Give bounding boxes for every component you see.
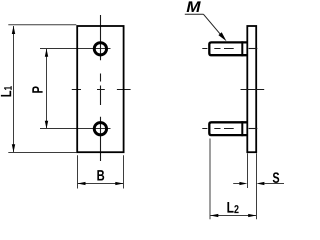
hole H1 horizontal centerline / P extension bbox=[40, 48, 111, 50]
dimension s right tail bbox=[264, 183, 284, 185]
label L1 bbox=[1, 86, 12, 96]
dimension B line bbox=[77, 183, 123, 185]
leader arrowhead bbox=[218, 32, 226, 41]
dimension L2 arrow right bbox=[248, 214, 256, 217]
dimension s left extension line bbox=[247, 153, 249, 188]
dimension s right arrow bbox=[256, 182, 264, 185]
plate outline front view bbox=[77, 26, 123, 152]
hole H2 (threaded) bbox=[94, 123, 106, 135]
dimension B left extension line bbox=[77, 155, 79, 188]
leader diagonal to stud bbox=[204, 14, 225, 38]
label P bbox=[32, 86, 42, 92]
side plate bar outline bbox=[247, 26, 256, 152]
label B bbox=[97, 170, 104, 180]
dimension L1 arrow down bbox=[12, 144, 15, 152]
label s bbox=[273, 172, 279, 183]
dimension L1 line bbox=[13, 26, 15, 152]
stud S2 centerline right part bbox=[249, 128, 258, 130]
dimension P arrow up bbox=[45, 49, 48, 57]
stud S1 centerline bbox=[202, 48, 233, 50]
dimension s right extension line (continues to L2) bbox=[256, 153, 258, 219]
dimension L1 bottom extension line bbox=[8, 152, 76, 154]
dimension P arrow down bbox=[45, 121, 48, 129]
stud S2 thread boundary line bbox=[241, 121, 243, 136]
dimension L2 left extension line bbox=[209, 139, 211, 220]
dimension s left arrow bbox=[239, 182, 247, 185]
dimension s left tail bbox=[233, 183, 240, 185]
dimension L2 arrow left bbox=[210, 214, 218, 217]
dimension L2 line bbox=[210, 215, 257, 217]
dimension B arrow right bbox=[115, 182, 123, 185]
dimension B arrow left bbox=[77, 182, 85, 185]
stud S2 body bbox=[209, 122, 247, 135]
horizontal mid centerline side view bbox=[241, 89, 265, 91]
dimension B right extension line bbox=[123, 155, 125, 188]
leader underline from M bbox=[185, 13, 204, 15]
stud S1 centerline right part bbox=[249, 48, 258, 50]
dimension L1 top extension line bbox=[8, 24, 76, 26]
dimension L1 arrow up bbox=[12, 26, 15, 34]
dimension P line bbox=[46, 49, 48, 129]
hole H1 (threaded) bbox=[94, 43, 106, 55]
stud S2 centerline bbox=[202, 128, 233, 130]
horizontal mid centerline front view bbox=[72, 89, 131, 91]
stud S1 thread boundary line bbox=[241, 41, 243, 56]
hole H2 horizontal centerline / P extension bbox=[40, 128, 111, 130]
label L2 bbox=[227, 202, 238, 213]
label M bbox=[187, 1, 201, 12]
vertical centerline of holes bbox=[100, 15, 102, 161]
stud S1 body bbox=[209, 42, 247, 55]
